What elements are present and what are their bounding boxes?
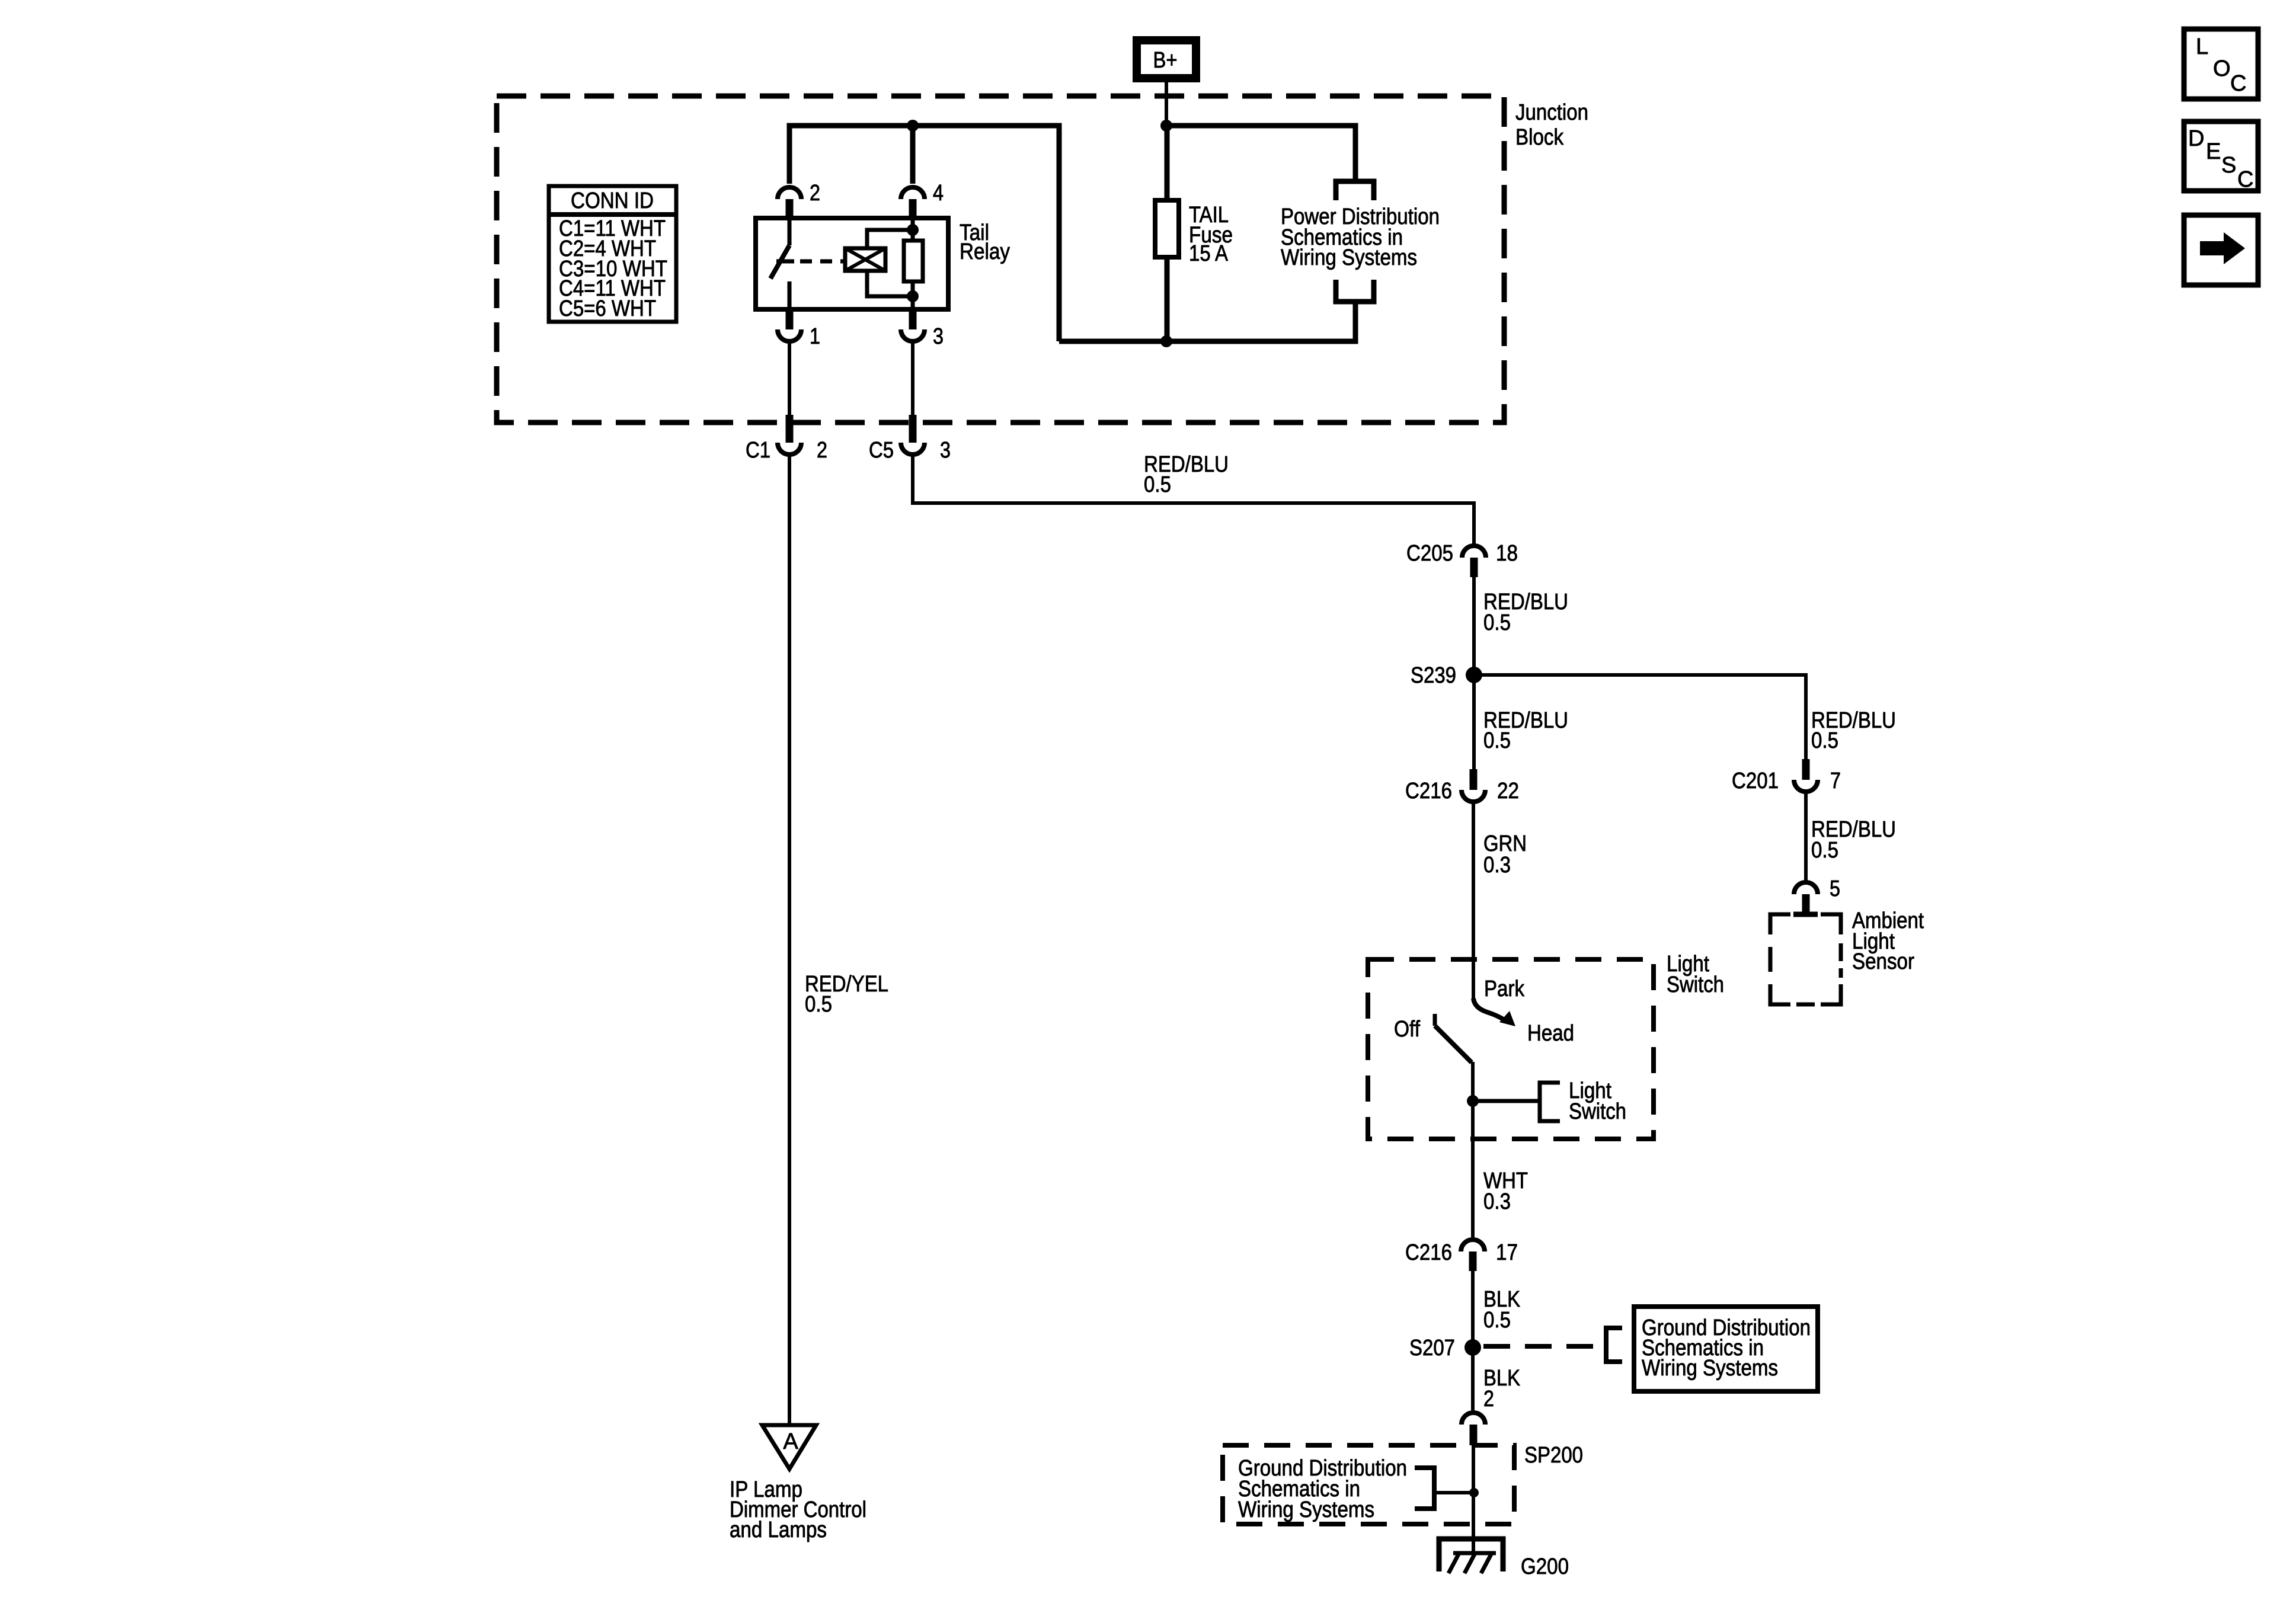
wire bottom bus bbox=[1059, 302, 1355, 341]
off-page arrow A bbox=[762, 1425, 816, 1469]
wire bracket to splice bbox=[1434, 1491, 1474, 1494]
svg-text:Head: Head bbox=[1527, 1021, 1574, 1046]
node splice dot SP200 bbox=[1469, 1488, 1479, 1497]
relay actuator dashed link bbox=[800, 260, 845, 264]
wire RED/YEL C1 to dimmer bbox=[788, 454, 791, 1425]
wire SP200 to ground bbox=[1472, 1445, 1475, 1555]
svg-text:C5=6 WHT: C5=6 WHT bbox=[559, 296, 656, 321]
bracket light switch internal bbox=[1540, 1083, 1560, 1121]
svg-text:Block: Block bbox=[1515, 125, 1564, 150]
svg-text:S207: S207 bbox=[1409, 1336, 1455, 1361]
svg-text:0.3: 0.3 bbox=[1483, 853, 1511, 878]
svg-text:Switch: Switch bbox=[1569, 1099, 1626, 1124]
svg-text:L: L bbox=[2196, 34, 2208, 59]
svg-text:7: 7 bbox=[1830, 769, 1841, 793]
wire GRN C216 to light switch bbox=[1472, 802, 1475, 1001]
svg-text:C: C bbox=[2237, 167, 2253, 192]
wire S239 branch to C201 bbox=[1474, 675, 1806, 759]
svg-text:0.5: 0.5 bbox=[1483, 610, 1511, 635]
svg-text:Wiring Systems: Wiring Systems bbox=[1238, 1497, 1374, 1522]
arrow box bbox=[2184, 215, 2258, 285]
label BLK 2 bbox=[1483, 1366, 1520, 1411]
label IP Lamp Dimmer Control and Lamps bbox=[730, 1477, 866, 1542]
node B+ fuse dot bbox=[1160, 120, 1172, 132]
reference box Ground Distribution Schematics in Wiring Systems bbox=[1634, 1307, 1818, 1391]
svg-text:2: 2 bbox=[810, 181, 820, 206]
label Ground Distribution Schematics in Wiring Systems dashed box bbox=[1238, 1456, 1407, 1522]
wire B+ to fuse bbox=[1165, 126, 1170, 200]
svg-text:S: S bbox=[2221, 153, 2236, 178]
svg-text:Junction: Junction bbox=[1515, 100, 1588, 125]
svg-text:C: C bbox=[2230, 71, 2246, 96]
label Light Switch internal bbox=[1569, 1078, 1626, 1124]
svg-text:CONN ID: CONN ID bbox=[571, 188, 654, 213]
wire BLK C216 to S207 bbox=[1471, 1271, 1475, 1347]
node coil bottom dot bbox=[907, 290, 919, 302]
svg-text:C5: C5 bbox=[869, 438, 894, 463]
label Power Distribution Schematics in Wiring Systems bbox=[1281, 204, 1440, 270]
svg-text:18: 18 bbox=[1496, 541, 1518, 566]
bracket splice reference SP200 bbox=[1415, 1468, 1434, 1509]
wire park position curve with arrow bbox=[1473, 998, 1506, 1021]
label RED/BLU 0.5 branch bbox=[1811, 708, 1896, 753]
svg-text:Wiring Systems: Wiring Systems bbox=[1642, 1356, 1778, 1381]
svg-text:Wiring Systems: Wiring Systems bbox=[1281, 245, 1417, 270]
wire S239 to C216 bbox=[1472, 675, 1476, 769]
svg-text:C1: C1 bbox=[746, 438, 770, 463]
node splice S207 bbox=[1409, 1336, 1481, 1361]
connector pin 5 ambient light sensor bbox=[1793, 876, 1840, 914]
pin 4 connector bbox=[901, 181, 944, 218]
label RED/BLU 0.5 top run bbox=[1144, 452, 1229, 497]
junction block label bbox=[1515, 100, 1588, 150]
power symbol B+ bbox=[1137, 40, 1196, 78]
wire pin4 drop bbox=[910, 126, 916, 184]
svg-text:4: 4 bbox=[933, 181, 944, 206]
fuse F1 TAIL 15A bbox=[1155, 200, 1179, 257]
label BLK 0.5 bbox=[1483, 1287, 1520, 1333]
node fuse bottom dot bbox=[1160, 335, 1172, 347]
svg-text:Park: Park bbox=[1484, 977, 1525, 1001]
pin 2 connector bbox=[778, 181, 820, 218]
pin 1 connector bbox=[778, 311, 820, 349]
svg-text:0.5: 0.5 bbox=[1811, 838, 1838, 863]
wire switch output bbox=[1471, 1062, 1475, 1139]
wire BLK S207 to SP200 bbox=[1471, 1347, 1475, 1410]
svg-text:Off: Off bbox=[1394, 1017, 1420, 1042]
svg-text:2: 2 bbox=[817, 438, 827, 463]
connector C1 pin 2 bbox=[746, 415, 827, 463]
loc box bbox=[2184, 29, 2258, 99]
svg-text:0.5: 0.5 bbox=[1483, 1308, 1511, 1333]
svg-text:E: E bbox=[2206, 139, 2221, 164]
relay U1 Tail Relay box bbox=[756, 218, 948, 309]
connector C216 pin 22 bbox=[1405, 769, 1519, 804]
svg-text:G200: G200 bbox=[1521, 1554, 1569, 1579]
svg-text:22: 22 bbox=[1497, 779, 1519, 804]
label Light Switch box bbox=[1667, 952, 1724, 997]
wire pin4 internal bbox=[911, 218, 915, 241]
svg-text:1: 1 bbox=[810, 324, 820, 349]
svg-text:2: 2 bbox=[1483, 1387, 1494, 1411]
svg-text:B+: B+ bbox=[1153, 48, 1178, 73]
connector C201 pin 7 bbox=[1732, 759, 1841, 793]
svg-text:and Lamps: and Lamps bbox=[730, 1518, 827, 1542]
wire fuse bottom bbox=[1165, 257, 1170, 341]
CONN ID table bbox=[549, 186, 676, 322]
svg-text:C201: C201 bbox=[1732, 769, 1779, 793]
svg-text:S239: S239 bbox=[1411, 663, 1456, 688]
label GRN 0.3 bbox=[1483, 831, 1527, 878]
svg-text:17: 17 bbox=[1496, 1240, 1518, 1265]
svg-text:C216: C216 bbox=[1405, 779, 1452, 804]
label RED/BLU 0.5 below S239 bbox=[1483, 708, 1568, 753]
connector C216 pin 17 bbox=[1405, 1240, 1518, 1271]
svg-text:Switch: Switch bbox=[1667, 972, 1724, 997]
svg-text:3: 3 bbox=[940, 438, 951, 463]
wire WHT switch to C216 bbox=[1471, 1139, 1475, 1237]
svg-text:C205: C205 bbox=[1406, 541, 1453, 566]
node splice S239 bbox=[1411, 663, 1482, 688]
svg-text:Sensor: Sensor bbox=[1852, 949, 1914, 974]
svg-text:0.5: 0.5 bbox=[1811, 728, 1838, 753]
svg-text:5: 5 bbox=[1830, 876, 1840, 901]
svg-text:3: 3 bbox=[933, 324, 944, 349]
wire C201 to sensor pin 5 bbox=[1804, 792, 1808, 882]
relay coil bbox=[845, 248, 885, 271]
svg-text:0.3: 0.3 bbox=[1483, 1189, 1511, 1214]
svg-text:0.5: 0.5 bbox=[1483, 728, 1511, 753]
svg-text:SP200: SP200 bbox=[1524, 1443, 1583, 1468]
desc box bbox=[2184, 121, 2258, 192]
wire B+ to junction dot bbox=[1165, 82, 1168, 126]
bracket ground distribution reference bbox=[1606, 1328, 1622, 1362]
relay label Tail Relay bbox=[960, 220, 1010, 264]
label WHT 0.3 bbox=[1483, 1169, 1528, 1214]
pin 3 connector bbox=[901, 311, 944, 349]
node coil top dot bbox=[907, 224, 919, 236]
ground G200 symbol bbox=[1439, 1539, 1503, 1573]
connector C205 pin 18 bbox=[1406, 541, 1518, 577]
wire top bus relay feed bbox=[789, 126, 1059, 341]
svg-text:D: D bbox=[2188, 126, 2204, 151]
svg-text:15 A: 15 A bbox=[1189, 241, 1229, 266]
label RED/BLU 0.5 above S239 bbox=[1483, 590, 1568, 635]
svg-text:C216: C216 bbox=[1405, 1240, 1452, 1265]
off-page bracket power distribution top bbox=[1336, 181, 1374, 200]
node light switch junction dot bbox=[1467, 1095, 1479, 1107]
label RED/YEL 0.5 bbox=[805, 972, 888, 1017]
wire B+ bus to power distribution bbox=[1166, 126, 1355, 181]
svg-text:A: A bbox=[783, 1429, 798, 1454]
relay switch contact bbox=[770, 218, 794, 311]
label RED/BLU 0.5 below C201 bbox=[1811, 817, 1896, 863]
ground distribution dashed box bbox=[1223, 1445, 1514, 1524]
wire pin3 to C5 bbox=[911, 341, 914, 415]
node pin4 branch dot bbox=[907, 120, 919, 132]
wire RED/BLU C5 to C205 bbox=[913, 454, 1474, 546]
wire C205 to S239 bbox=[1472, 575, 1476, 675]
fuse label TAIL Fuse 15 A bbox=[1189, 203, 1233, 266]
wire coil loop bbox=[867, 230, 913, 248]
junction block dashed border bbox=[497, 96, 1504, 422]
switch blade bbox=[1435, 1014, 1472, 1062]
svg-text:0.5: 0.5 bbox=[1144, 472, 1171, 497]
svg-text:0.5: 0.5 bbox=[805, 992, 832, 1017]
arrowhead park curve bbox=[1499, 1011, 1515, 1026]
svg-text:O: O bbox=[2213, 56, 2231, 81]
connector C5 pin 3 bbox=[869, 415, 951, 463]
ambient light sensor dashed box bbox=[1770, 914, 1841, 1004]
off-page bracket power distribution bottom bbox=[1336, 280, 1374, 302]
svg-text:Relay: Relay bbox=[960, 239, 1010, 264]
relay resistor bbox=[904, 241, 923, 281]
wire dashed S207 to ground distribution bbox=[1483, 1344, 1604, 1349]
wire pin1 to C1 bbox=[788, 341, 791, 415]
light switch dashed box bbox=[1368, 959, 1654, 1139]
label Ambient Light Sensor bbox=[1852, 908, 1924, 974]
connector SP200 bbox=[1462, 1413, 1583, 1468]
wire junction to bracket bbox=[1473, 1099, 1540, 1103]
